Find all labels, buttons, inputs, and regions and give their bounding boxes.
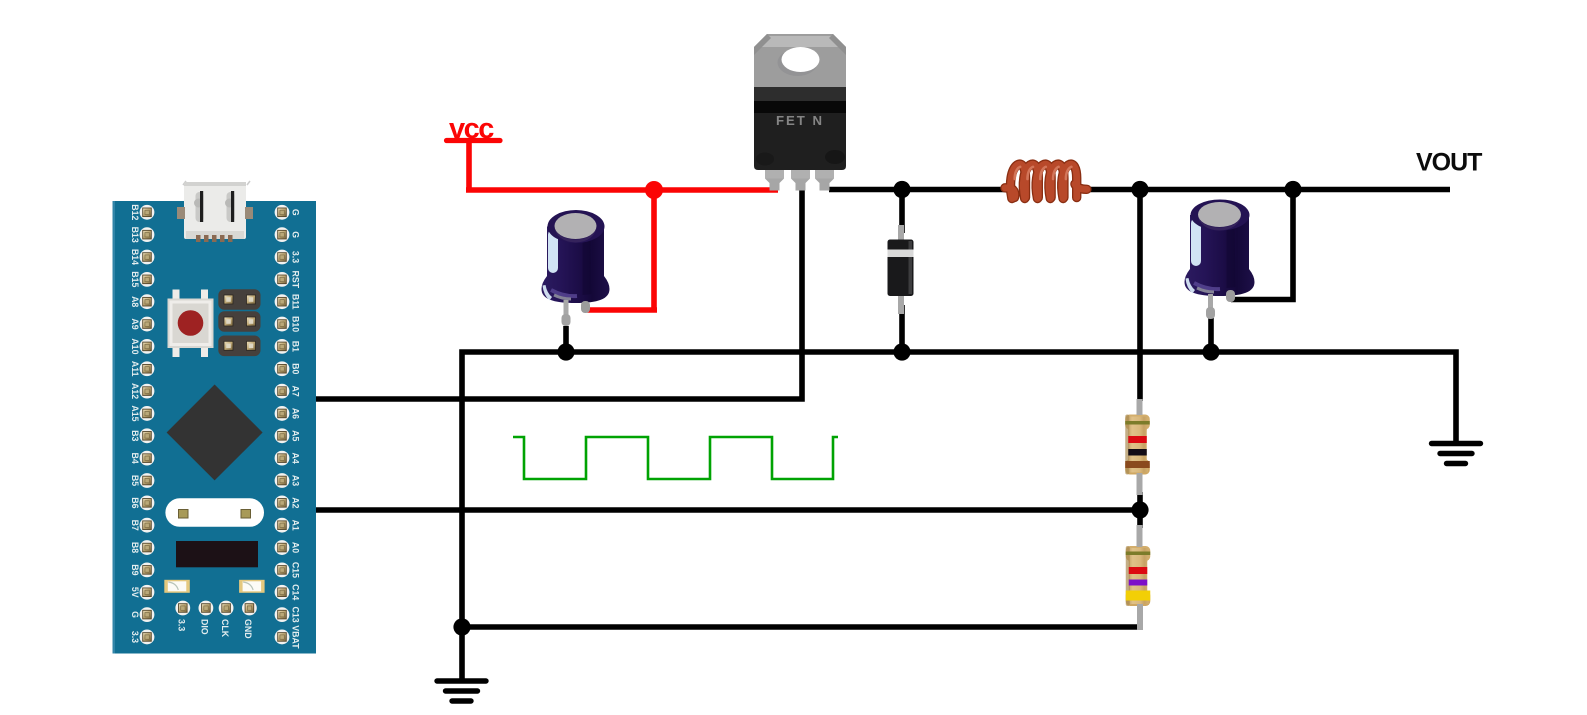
svg-text:B7: B7 xyxy=(130,520,140,531)
svg-text:A12: A12 xyxy=(130,383,140,399)
svg-text:A10: A10 xyxy=(130,338,140,354)
svg-text:B15: B15 xyxy=(130,271,140,287)
svg-text:C14: C14 xyxy=(291,584,301,600)
svg-text:B3: B3 xyxy=(130,430,140,441)
svg-text:3.3: 3.3 xyxy=(130,631,140,643)
svg-text:5V: 5V xyxy=(130,587,140,598)
svg-text:3.3: 3.3 xyxy=(291,251,301,263)
svg-text:B10: B10 xyxy=(291,316,301,332)
svg-text:B0: B0 xyxy=(291,363,301,374)
svg-text:RST: RST xyxy=(291,271,301,289)
svg-text:vcc: vcc xyxy=(449,113,494,145)
svg-text:GND: GND xyxy=(243,619,253,639)
svg-text:B1: B1 xyxy=(291,341,301,352)
svg-text:G: G xyxy=(291,231,301,238)
svg-text:B12: B12 xyxy=(130,204,140,220)
svg-text:B8: B8 xyxy=(130,542,140,553)
svg-text:B11: B11 xyxy=(291,294,301,310)
svg-text:B9: B9 xyxy=(130,564,140,575)
svg-text:VOUT: VOUT xyxy=(1416,149,1482,177)
svg-text:B5: B5 xyxy=(130,475,140,486)
svg-text:B6: B6 xyxy=(130,497,140,508)
svg-text:A9: A9 xyxy=(130,318,140,329)
svg-text:B4: B4 xyxy=(130,453,140,464)
svg-text:A0: A0 xyxy=(291,542,301,553)
svg-text:A4: A4 xyxy=(291,453,301,464)
svg-text:A8: A8 xyxy=(130,296,140,307)
svg-text:3.3: 3.3 xyxy=(177,619,187,631)
svg-text:A7: A7 xyxy=(291,385,301,396)
svg-text:C15: C15 xyxy=(291,562,301,578)
svg-text:VBAT: VBAT xyxy=(291,625,301,649)
svg-text:C13: C13 xyxy=(291,607,301,623)
svg-text:A5: A5 xyxy=(291,430,301,441)
svg-text:A11: A11 xyxy=(130,361,140,377)
svg-text:A2: A2 xyxy=(291,497,301,508)
svg-text:G: G xyxy=(291,209,301,216)
svg-text:CLK: CLK xyxy=(220,619,230,638)
svg-text:FET N: FET N xyxy=(776,113,824,128)
svg-text:A1: A1 xyxy=(291,520,301,531)
svg-text:DIO: DIO xyxy=(200,619,210,635)
svg-text:A6: A6 xyxy=(291,408,301,419)
svg-text:B14: B14 xyxy=(130,249,140,265)
svg-text:G: G xyxy=(130,611,140,618)
svg-text:B13: B13 xyxy=(130,227,140,243)
svg-text:A3: A3 xyxy=(291,475,301,486)
svg-text:A15: A15 xyxy=(130,405,140,421)
